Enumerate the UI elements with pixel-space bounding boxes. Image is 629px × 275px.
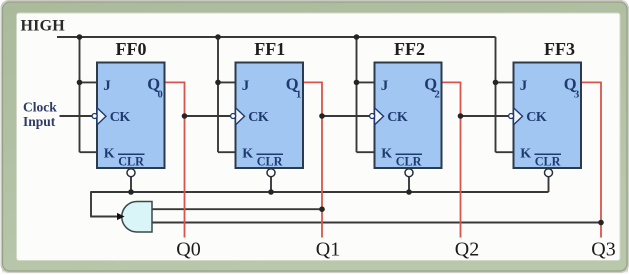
wire AND gate input from Q3 bbox=[152, 222, 601, 224]
junction CLR bus FF1 bbox=[268, 189, 274, 195]
wire HIGH bus bbox=[57, 36, 496, 38]
svg-text:Q3: Q3 bbox=[591, 239, 615, 261]
svg-text:Clock: Clock bbox=[23, 99, 57, 114]
junction HIGH bus at FF1 bbox=[215, 34, 221, 40]
wire FF0 CLR stub bbox=[130, 177, 132, 192]
svg-text:K: K bbox=[381, 146, 392, 161]
svg-text:J: J bbox=[242, 78, 250, 94]
svg-text:J: J bbox=[520, 78, 528, 94]
svg-text:K: K bbox=[104, 146, 115, 161]
wire FF3 K stub bbox=[496, 151, 514, 153]
svg-text:CLR: CLR bbox=[118, 154, 144, 168]
flip-flop FF3 box bbox=[514, 63, 582, 169]
wire FF1 CLR stub bbox=[270, 177, 272, 192]
svg-text:FF1: FF1 bbox=[254, 39, 285, 59]
AND gate G1 (mirrored, inputs right) bbox=[122, 202, 152, 233]
svg-text:3: 3 bbox=[574, 89, 579, 100]
svg-text:Q0: Q0 bbox=[176, 239, 200, 261]
flip-flop FF2 box bbox=[375, 63, 442, 169]
flip-flop FF1 CLR bubble bbox=[267, 169, 275, 177]
wire AND gate output to CLR bus bbox=[90, 216, 118, 218]
svg-text:CK: CK bbox=[526, 110, 547, 125]
wire FF1 K stub bbox=[218, 151, 236, 153]
svg-text:J: J bbox=[381, 78, 389, 94]
junction FF2 J bbox=[354, 80, 360, 86]
svg-text:CLR: CLR bbox=[396, 154, 422, 168]
svg-text:CK: CK bbox=[387, 110, 408, 125]
flip-flop FF1 CK bubble bbox=[231, 114, 236, 119]
svg-text:CLR: CLR bbox=[535, 154, 561, 168]
svg-text:Q1: Q1 bbox=[316, 239, 340, 261]
wire Q1 output (red) bbox=[303, 82, 322, 237]
wire Q1 to FF2 CK bbox=[322, 115, 370, 117]
junction HIGH bus at FF0 bbox=[77, 34, 83, 40]
flip-flop FF3 CK bubble bbox=[509, 114, 514, 119]
flip-flop FF2 CLR bubble bbox=[405, 169, 413, 177]
junction CLR bus FF2 bbox=[406, 189, 412, 195]
wire FF1 J stub bbox=[218, 81, 236, 83]
wire FF2 J-K tie vertical bbox=[356, 37, 358, 152]
wire FF3 J stub bbox=[496, 81, 514, 83]
wire Q2 to FF3 CK bbox=[461, 115, 510, 117]
wire FF0 J-K tie vertical bbox=[79, 37, 81, 152]
AND gate output arrowhead bbox=[117, 213, 125, 220]
junction FF0 J bbox=[77, 80, 83, 86]
junction FF3 J bbox=[493, 80, 499, 86]
svg-text:FF2: FF2 bbox=[394, 39, 425, 59]
svg-text:0: 0 bbox=[158, 89, 163, 100]
wire Q0 output (red) bbox=[165, 82, 185, 237]
wire AND gate input from Q1 bbox=[152, 208, 322, 210]
svg-text:CK: CK bbox=[248, 110, 269, 125]
junction Q1 at CK line bbox=[319, 113, 325, 119]
svg-text:FF3: FF3 bbox=[544, 39, 575, 59]
svg-text:Input: Input bbox=[23, 114, 56, 129]
wire FF1 J-K tie vertical bbox=[217, 37, 219, 152]
wire Q2 output (red) bbox=[442, 82, 461, 237]
svg-text:FF0: FF0 bbox=[116, 39, 147, 59]
flip-flop FF0 box bbox=[97, 63, 165, 169]
wire FF2 J stub bbox=[357, 81, 375, 83]
flip-flop FF2 CK bubble bbox=[370, 114, 375, 119]
svg-text:2: 2 bbox=[435, 89, 440, 100]
wire FF3 J-K tie vertical bbox=[495, 37, 497, 152]
wire FF0 J stub bbox=[80, 81, 98, 83]
flip-flop FF3 CLR bubble bbox=[545, 169, 553, 177]
svg-text:K: K bbox=[242, 146, 253, 161]
junction Q0 at CK line bbox=[182, 113, 188, 119]
flip-flop FF0 CK bubble bbox=[92, 114, 97, 119]
wire CLR bus left drop bbox=[90, 191, 92, 216]
svg-text:Q2: Q2 bbox=[455, 239, 479, 261]
svg-text:CLR: CLR bbox=[257, 154, 283, 168]
wire Q3 output (red) bbox=[581, 82, 601, 237]
wire FF2 K stub bbox=[357, 151, 375, 153]
junction gate input at Q1 bbox=[319, 206, 325, 212]
junction HIGH bus at FF2 bbox=[354, 34, 360, 40]
flip-flop FF0 CLR bubble bbox=[127, 169, 135, 177]
junction Q2 at CK line bbox=[458, 113, 464, 119]
svg-text:K: K bbox=[520, 146, 531, 161]
wire CLR bus bbox=[91, 191, 549, 193]
junction gate input at Q3 bbox=[598, 220, 604, 226]
svg-text:HIGH: HIGH bbox=[21, 17, 66, 34]
wire FF0 K stub bbox=[80, 151, 98, 153]
svg-text:J: J bbox=[103, 78, 111, 94]
svg-text:1: 1 bbox=[296, 89, 301, 100]
svg-text:CK: CK bbox=[110, 110, 131, 125]
wire clock input line bbox=[60, 115, 93, 117]
wire FF2 CLR stub bbox=[408, 177, 410, 192]
junction FF1 J bbox=[215, 80, 221, 86]
wire FF3 CLR stub bbox=[548, 177, 550, 192]
flip-flop FF1 box bbox=[236, 63, 304, 169]
wire Q0 to FF1 CK bbox=[185, 115, 232, 117]
junction CLR bus FF0 bbox=[128, 189, 134, 195]
